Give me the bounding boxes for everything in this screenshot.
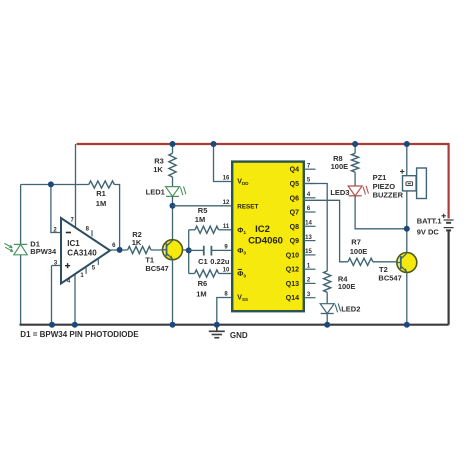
wire T1 emitter to ground	[172, 260, 174, 325]
svg-text:100E: 100E	[331, 162, 349, 171]
oscillator bus wire	[188, 230, 190, 274]
+9V supply rail	[77, 144, 449, 218]
svg-text:1M: 1M	[195, 215, 205, 224]
svg-text:1K: 1K	[132, 238, 142, 247]
resistor R4	[324, 271, 331, 292]
svg-text:PIEZO: PIEZO	[373, 182, 396, 191]
wire R4 to LED2	[326, 292, 328, 303]
rail junction nodes	[170, 141, 176, 147]
wire R1 to op-amp output	[114, 185, 119, 250]
IC1 pin 5 stub	[97, 259, 99, 265]
svg-text:IC2: IC2	[255, 224, 270, 235]
svg-text:RESET: RESET	[237, 203, 258, 210]
resistor R2	[128, 246, 151, 253]
wire VSS to ground	[217, 298, 232, 325]
battery BATT.1 9V	[444, 220, 454, 230]
wire IC1 pin 4 to ground	[74, 274, 76, 324]
photodiode D1 BPW34	[5, 243, 28, 254]
svg-text:Q14: Q14	[286, 295, 299, 302]
svg-text:1K: 1K	[153, 165, 163, 174]
wire LED1 to T1 collector	[172, 196, 174, 239]
piezo plus marking	[400, 169, 404, 173]
svg-text:Q9: Q9	[290, 238, 299, 245]
wire LED3 to T2 collector node	[355, 196, 407, 229]
svg-text:1M: 1M	[196, 290, 206, 299]
svg-text:14: 14	[305, 221, 312, 227]
piezo buzzer PZ1 wires	[406, 144, 408, 253]
wire T1 base / oscillator node	[151, 249, 189, 251]
svg-text:BC547: BC547	[378, 273, 401, 282]
resistor R6	[189, 273, 195, 275]
node bus/C1 junction	[186, 247, 192, 253]
svg-text:LED1: LED1	[146, 188, 165, 197]
resistor R8	[354, 144, 356, 153]
svg-text:BC547: BC547	[145, 264, 168, 273]
wire VDD supply to IC2 pin 16	[214, 144, 233, 182]
svg-text:1M: 1M	[96, 199, 106, 208]
svg-text:Q13: Q13	[286, 281, 299, 288]
svg-text:LED2: LED2	[341, 304, 360, 313]
IC2 CD4060 body	[232, 162, 304, 312]
piezo buzzer PZ1	[417, 168, 427, 199]
IC1 pin 8 stub	[91, 230, 93, 236]
battery plus marking	[442, 214, 446, 218]
svg-text:16: 16	[223, 176, 230, 182]
svg-text:Q12: Q12	[286, 267, 299, 274]
battery negative wire	[448, 231, 450, 325]
svg-text:CA3140: CA3140	[67, 248, 97, 257]
wire non-inverting input pin 3	[52, 266, 62, 325]
node R1/pin2 junction	[48, 181, 54, 187]
svg-text:12: 12	[223, 200, 230, 206]
svg-text:10: 10	[223, 268, 230, 274]
wire IC1 pin7 to +9V rail	[75, 144, 77, 227]
wire R1 top net	[21, 184, 89, 186]
resistor R5	[189, 229, 195, 231]
svg-text:Q10: Q10	[286, 252, 299, 259]
ground rail junction nodes	[49, 322, 55, 328]
LED1	[166, 187, 180, 197]
wire op-amp output	[110, 249, 128, 251]
LED2	[320, 304, 334, 314]
IC1 minus input marking	[66, 232, 71, 234]
svg-text:Q8: Q8	[290, 224, 299, 231]
transistor T2 BC547	[406, 272, 408, 324]
svg-text:100E: 100E	[350, 247, 368, 256]
wire LED2 to ground	[326, 314, 328, 325]
node LED1/reset junction	[170, 203, 176, 209]
svg-text:15: 15	[305, 249, 312, 255]
svg-text:PZ1: PZ1	[373, 173, 387, 182]
svg-text:R1: R1	[96, 189, 106, 198]
op-amp IC1 CA3140	[61, 218, 110, 284]
svg-text:R6: R6	[198, 279, 208, 288]
svg-text:100E: 100E	[338, 282, 356, 291]
node LED3/piezo/T2 junction	[404, 226, 410, 232]
svg-text:9V DC: 9V DC	[417, 228, 440, 237]
wire R3 to LED1	[172, 177, 174, 187]
IC2 right pin stubs, labels and numbers	[304, 168, 316, 170]
resistor R1	[89, 181, 115, 188]
svg-text:D1 = BPW34 PIN PHOTODIODE: D1 = BPW34 PIN PHOTODIODE	[20, 330, 139, 339]
LED3	[348, 186, 362, 196]
svg-text:13: 13	[305, 235, 312, 241]
capacitor C1 0.22u	[189, 249, 204, 251]
wire R8 to LED3	[354, 172, 356, 186]
wire IC2 Q6 to R7	[304, 198, 348, 262]
ground symbol GND	[209, 325, 225, 338]
svg-text:CD4060: CD4060	[248, 235, 283, 246]
svg-text:BATT.1: BATT.1	[417, 217, 442, 226]
node output/feedback junction	[117, 247, 123, 253]
svg-text:11: 11	[223, 224, 230, 230]
resistor R3	[172, 144, 174, 153]
svg-text:BPW34: BPW34	[30, 247, 57, 256]
svg-text:0.22u: 0.22u	[210, 257, 230, 266]
wire IC2 Q5 to R4	[304, 184, 327, 272]
svg-text:LED3: LED3	[330, 188, 349, 197]
svg-text:C1: C1	[198, 257, 208, 266]
svg-text:Q6: Q6	[290, 195, 299, 202]
resistor R7	[348, 258, 373, 265]
svg-text:Q5: Q5	[290, 181, 299, 188]
svg-text:R7: R7	[351, 238, 361, 247]
wire inverting input pin 2	[51, 185, 61, 233]
transistor T1 BC547	[163, 240, 183, 260]
svg-text:GND: GND	[230, 331, 248, 340]
IC1 plus input marking	[65, 263, 70, 268]
svg-text:R5: R5	[198, 206, 208, 215]
svg-text:BUZZER: BUZZER	[373, 191, 404, 200]
svg-text:R3: R3	[154, 157, 164, 166]
IC1 pin 1 stub	[85, 267, 87, 274]
wire photodiode branch	[20, 185, 22, 325]
svg-text:Q7: Q7	[290, 210, 299, 217]
ground rail	[21, 324, 449, 325]
svg-text:Q4: Q4	[290, 167, 299, 174]
svg-text:IC1: IC1	[67, 239, 80, 248]
wire reset line to IC2 pin 12	[173, 205, 233, 207]
